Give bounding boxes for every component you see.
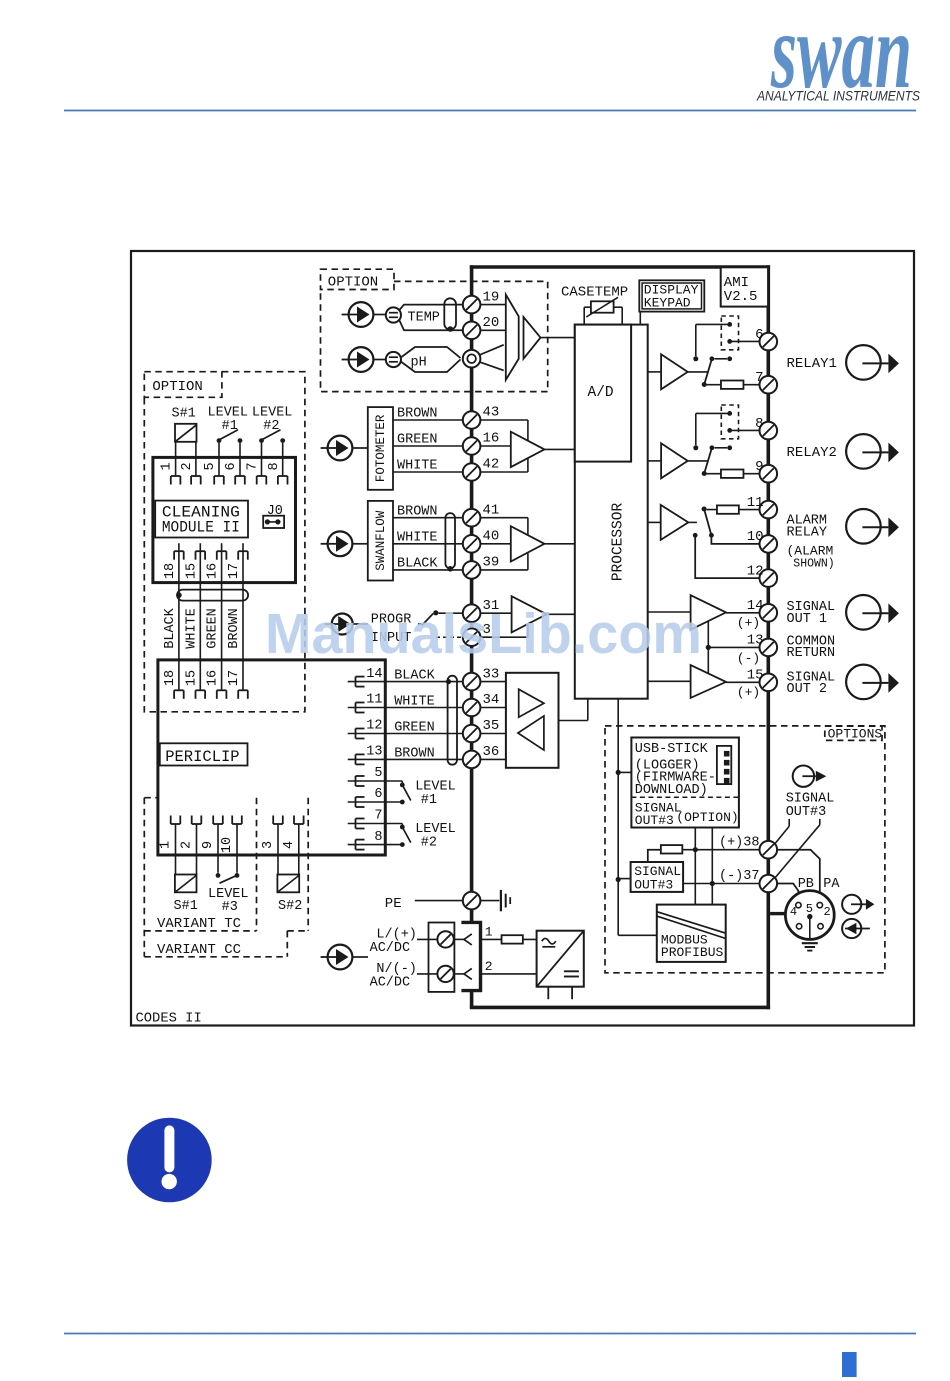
terminal 42 [463, 457, 500, 481]
svg-text:OUT 1: OUT 1 [787, 612, 828, 627]
svg-text:ManualsLib.com: ManualsLib.com [265, 602, 702, 666]
svg-text:OPTION: OPTION [328, 274, 378, 290]
svg-text:12: 12 [747, 563, 764, 579]
svg-text:20: 20 [483, 315, 500, 331]
profibus DIN connector J2 [770, 891, 834, 940]
terminal 19 [463, 289, 500, 313]
label LEVEL #2 (top) [252, 405, 293, 433]
svg-text:BLACK: BLACK [163, 607, 178, 648]
svg-text:TEMP: TEMP [408, 311, 440, 326]
svg-text:(-)37: (-)37 [719, 869, 760, 884]
svg-text:14: 14 [366, 667, 382, 682]
svg-text:16: 16 [206, 670, 221, 686]
svg-text:WHITE: WHITE [394, 695, 435, 710]
svg-text:GREEN: GREEN [397, 433, 438, 448]
swanflow probe connector [321, 531, 368, 556]
label COMMON RETURN [787, 635, 836, 662]
label ALARM RELAY [787, 514, 835, 571]
label LEVEL #1 (top) [208, 405, 249, 433]
level switch #1 (top) [217, 430, 243, 458]
label RELAY1 [787, 356, 837, 372]
terminal 34 [463, 692, 500, 716]
instrument enclosure top edge [470, 265, 770, 269]
svg-text:OUT#3: OUT#3 [786, 805, 827, 820]
AC/DC power supply box [537, 931, 584, 987]
svg-text:AC/DC: AC/DC [370, 976, 411, 991]
svg-text:19: 19 [483, 289, 500, 305]
OPTIONS dashed box [605, 726, 885, 973]
fotometer amp wires loop [480, 420, 528, 472]
left terminal bus [470, 265, 474, 922]
svg-text:(+)38: (+)38 [719, 835, 760, 850]
periclip pin 1 (bottom) [159, 816, 181, 856]
svg-text:7: 7 [246, 462, 261, 470]
svg-text:FOTOMETER: FOTOMETER [374, 414, 388, 482]
CLEANING MODULE II box [155, 501, 248, 538]
wire colour labels (vertical) [163, 607, 242, 648]
diagram outer frame [131, 251, 914, 1026]
profibus in icon [842, 919, 870, 938]
SWANFLOW box [368, 501, 393, 581]
periclip pin 3 (bottom) [261, 816, 283, 856]
label SIGNAL OUT#3 (option) [786, 792, 835, 821]
periclip pin 9 (bottom) [201, 816, 223, 856]
periclip row 6 [348, 787, 400, 807]
wire 1 with fuse F1 [481, 925, 537, 944]
wire processor to usb/modbus [616, 699, 657, 936]
terminal 36 [463, 744, 500, 768]
signal out 2 amp [648, 665, 760, 698]
processor box U1 [575, 325, 648, 699]
MODBUS PROFIBUS box [657, 905, 726, 962]
alarm fuse to terminal 11 [707, 505, 760, 513]
periclip cable shield [446, 676, 457, 765]
svg-text:3: 3 [261, 841, 276, 849]
plug chevrons [454, 934, 472, 980]
label (+)38 terminal 38 [719, 835, 777, 858]
label LEVEL #1 (right) [415, 780, 456, 808]
svg-text:8: 8 [267, 462, 282, 470]
power terminal L [417, 931, 454, 947]
solenoid S#1 (top) [175, 424, 197, 458]
module pin 7 [246, 457, 267, 484]
cable bundle capsule [176, 590, 248, 601]
diag links 38/37 to signal out#3 [775, 819, 820, 878]
svg-text:(-): (-) [737, 651, 760, 666]
swanflow cable shield [445, 513, 455, 572]
svg-text:1: 1 [159, 841, 174, 849]
SIGNAL OUT#3 box [631, 862, 760, 893]
wires to terminals 33-36 [480, 682, 506, 760]
periclip row 14 wire to terminal [348, 667, 463, 687]
cleaning module box [153, 457, 296, 582]
relay coil dashed box (RELAY1) [721, 316, 738, 350]
footer blue square [842, 1352, 857, 1377]
FOTOMETER box [368, 407, 393, 490]
svg-text:33: 33 [483, 666, 500, 682]
svg-text:V2.5: V2.5 [724, 289, 758, 305]
fotometer amp [511, 432, 575, 467]
wire 38 to PA pin [777, 850, 820, 903]
module pin 17 + wire down [227, 543, 248, 690]
svg-text:42: 42 [483, 457, 500, 473]
profibus out icon [842, 895, 874, 914]
svg-text:MODULE II: MODULE II [162, 518, 240, 536]
svg-text:15: 15 [184, 563, 199, 579]
signal out 2 icon [846, 665, 899, 700]
svg-text:S#2: S#2 [278, 899, 302, 914]
svg-text:BLACK: BLACK [394, 669, 435, 684]
svg-text:RELAY2: RELAY2 [787, 445, 837, 461]
input mux trapezoid [506, 295, 519, 380]
svg-text:2: 2 [180, 841, 195, 849]
USB connector icon [717, 746, 731, 784]
svg-text:11: 11 [747, 495, 764, 511]
terminal 6 [755, 327, 777, 351]
swanflow amp wires loop [480, 518, 528, 570]
periclip pin 2 (bottom) [180, 816, 202, 856]
svg-text:2: 2 [824, 905, 831, 919]
relay driver amp (RELAY2) [648, 443, 709, 478]
svg-text:(+): (+) [737, 616, 760, 631]
svg-text:39: 39 [483, 555, 500, 571]
terminal 35 [463, 718, 500, 742]
module pin 16 + wire down [206, 543, 227, 690]
svg-text:8: 8 [755, 416, 763, 432]
solenoid S#2 (bottom) [277, 855, 302, 914]
level switch #3 [208, 855, 249, 915]
svg-text:43: 43 [483, 405, 500, 421]
svg-text:15: 15 [747, 668, 764, 684]
svg-text:BLACK: BLACK [397, 557, 438, 572]
progr input probe connector [325, 614, 368, 635]
labels PB PA [798, 877, 841, 892]
svg-text:1: 1 [160, 462, 175, 470]
periclip pin 4 (bottom) [282, 816, 304, 856]
pH sensor symbol [374, 352, 427, 371]
svg-text:17: 17 [227, 670, 242, 686]
svg-text:ANALYTICAL INSTRUMENTS: ANALYTICAL INSTRUMENTS [756, 88, 920, 104]
label (-)37 terminal 37 [719, 869, 777, 892]
power terminal N [417, 966, 454, 982]
signal out#3 fuse wire [648, 845, 760, 862]
periclip row 5 [348, 766, 403, 786]
svg-text:OUT#3: OUT#3 [634, 878, 673, 893]
mux buffer amp [524, 317, 575, 359]
RS485 driver box [506, 673, 559, 768]
label RELAY2 [787, 445, 837, 461]
PERICLIP label box [160, 743, 248, 766]
terminal 12 [747, 563, 777, 586]
periclip row 7 [348, 809, 403, 829]
alarm relay driver amp [648, 505, 697, 540]
periclip row 11 wire to terminal [348, 693, 463, 713]
swanflow amp [511, 526, 575, 561]
fotometer probe connector [321, 436, 368, 461]
solenoid S#1 (bottom) [174, 855, 198, 914]
module pin 6 [224, 457, 245, 484]
svg-text:PA: PA [823, 877, 840, 892]
VARIANT TC dashed box [144, 798, 256, 957]
svg-text:1: 1 [485, 925, 493, 940]
svg-text:BROWN: BROWN [397, 504, 438, 519]
svg-text:RETURN: RETURN [787, 646, 836, 661]
module pin 8 [267, 457, 288, 484]
PERICLIP box [158, 660, 385, 855]
relay coil wiring (RELAY2) [693, 413, 760, 450]
svg-text:34: 34 [483, 692, 500, 708]
svg-text:5: 5 [806, 902, 813, 916]
svg-text:OPTION: OPTION [152, 379, 202, 395]
progr input switch [418, 610, 463, 637]
svg-text:A/D: A/D [588, 385, 614, 401]
svg-text:40: 40 [483, 529, 500, 545]
module pin 5 [203, 457, 224, 484]
svg-text:#2: #2 [421, 836, 437, 851]
pH probe connector P2 [342, 347, 374, 372]
relay contact switch (RELAY1) [702, 356, 732, 387]
svg-text:SWANFLOW: SWANFLOW [374, 510, 388, 571]
svg-text:10: 10 [747, 529, 764, 545]
terminal 15 [737, 668, 777, 701]
pH coax wires [401, 345, 504, 372]
relay coil dashed box (RELAY2) [721, 405, 738, 439]
driver output wire [559, 699, 588, 721]
terminal 9 [755, 459, 777, 482]
label S#1 (top) [172, 407, 196, 422]
svg-text:PE: PE [385, 896, 402, 912]
svg-text:CASETEMP: CASETEMP [561, 285, 628, 301]
jumper J0 [263, 504, 284, 528]
svg-text:7: 7 [755, 370, 763, 386]
relay coil wiring (RELAY1) [693, 324, 760, 361]
svg-text:13: 13 [747, 633, 764, 649]
signal out#3 icon [793, 766, 827, 787]
periclip pin 15 [184, 670, 205, 699]
label LEVEL #2 (right) [415, 822, 456, 850]
svg-text:pH: pH [411, 356, 427, 371]
fotometer wires BROWN/GREEN/WHITE [393, 407, 463, 474]
svg-text:USB-STICK: USB-STICK [635, 742, 709, 757]
svg-text:5: 5 [374, 766, 382, 781]
svg-text:PROFIBUS: PROFIBUS [661, 945, 724, 960]
svg-text:PROCESSOR: PROCESSOR [610, 503, 626, 582]
periclip pin 17 [227, 670, 248, 699]
periclip row 13 wire to terminal [348, 745, 463, 765]
power entry bracket [461, 922, 480, 1007]
RELAY2 output icon [846, 434, 899, 469]
svg-text:(+): (+) [737, 685, 760, 700]
svg-text:#1: #1 [421, 793, 437, 808]
svg-text:S#1: S#1 [172, 407, 196, 422]
svg-text:WHITE: WHITE [397, 459, 438, 474]
svg-text:(OPTION): (OPTION) [676, 810, 738, 825]
label SIGNAL OUT 2 [787, 671, 836, 698]
svg-text:16: 16 [206, 563, 221, 579]
option box drop wires [693, 828, 715, 905]
alarm relay contact (alarm shown) [693, 507, 714, 538]
svg-text:#3: #3 [222, 900, 238, 915]
svg-text:10: 10 [220, 837, 235, 853]
swanflow wires BROWN/WHITE/BLACK [393, 504, 463, 571]
terminal 14 [737, 598, 777, 631]
TEMP wires to terminals 19/20 [399, 305, 463, 331]
svg-text:S#1: S#1 [174, 899, 198, 914]
terminal 10 [747, 529, 777, 553]
svg-text:WHITE: WHITE [397, 531, 438, 546]
wire 2 [481, 959, 537, 974]
AMI V2.5 box [721, 267, 768, 306]
periclip pin 16 [206, 670, 227, 699]
CASETEMP thermistor RT1 [561, 285, 628, 325]
svg-text:PERICLIP: PERICLIP [165, 748, 239, 766]
svg-text:12: 12 [366, 719, 382, 734]
svg-text:RELAY1: RELAY1 [787, 356, 837, 372]
svg-text:BROWN: BROWN [394, 746, 435, 761]
svg-text:VARIANT TC: VARIANT TC [157, 916, 241, 932]
module pin 1 [160, 457, 181, 484]
svg-text:17: 17 [227, 563, 242, 579]
ground below DIN connector [802, 943, 818, 950]
terminal 8 [755, 416, 777, 440]
terminal 13 [737, 633, 777, 666]
relay fuse (RELAY2) [707, 470, 760, 478]
svg-text:OUT#3: OUT#3 [635, 813, 674, 828]
label SIGNAL OUT 1 [787, 600, 836, 627]
warning icon (blue circle exclamation) [127, 1118, 212, 1203]
header rule [64, 110, 916, 112]
svg-text:GREEN: GREEN [206, 608, 221, 649]
svg-text:4: 4 [282, 841, 297, 849]
labels L/(+) AC/DC N/(-) AC/DC [370, 927, 417, 990]
svg-text:7: 7 [374, 809, 382, 824]
OPTION dashed box (sensor input option) [321, 269, 548, 391]
svg-text:CODES II: CODES II [136, 1012, 202, 1027]
label PE + wire [385, 896, 463, 912]
level switch #2 (top) [259, 430, 285, 458]
terminal 16 [463, 431, 500, 455]
terminal 40 [463, 529, 500, 553]
power supply pins [548, 987, 572, 1000]
alarm output icon [846, 509, 899, 544]
svg-text:35: 35 [483, 718, 500, 734]
terminal 7 [755, 370, 777, 393]
svg-text:BROWN: BROWN [397, 407, 438, 422]
svg-text:GREEN: GREEN [394, 721, 435, 736]
svg-text:14: 14 [747, 598, 764, 614]
svg-text:AC/DC: AC/DC [370, 941, 411, 956]
svg-text:RELAY: RELAY [787, 525, 828, 540]
progr amp [512, 596, 575, 632]
power probe connector [321, 945, 368, 970]
module pin 18 + wire down [163, 543, 184, 690]
module pin 15 + wire down [184, 543, 205, 690]
TEMP cable shield [444, 298, 456, 332]
USB-STICK box [631, 738, 739, 828]
svg-text:OUT 2: OUT 2 [787, 682, 828, 697]
PE terminal [463, 892, 481, 910]
svg-text:16: 16 [483, 431, 500, 447]
svg-text:WHITE: WHITE [184, 608, 199, 649]
svg-text:5: 5 [203, 462, 218, 470]
relay driver amp (RELAY1) [648, 354, 709, 389]
wire to terminal 12 [695, 535, 760, 578]
svg-text:6: 6 [374, 787, 382, 802]
svg-text:SIGNAL: SIGNAL [634, 864, 681, 879]
svg-text:18: 18 [163, 563, 178, 579]
svg-text:(ALARM: (ALARM [787, 544, 834, 559]
svg-text:2: 2 [180, 462, 195, 470]
svg-text:13: 13 [366, 745, 382, 760]
svg-text:VARIANT CC: VARIANT CC [157, 942, 241, 958]
label CODES II [136, 1012, 202, 1027]
footer rule [64, 1333, 916, 1335]
VARIANT CC dashed box [144, 798, 308, 958]
svg-text:6: 6 [755, 327, 763, 343]
terminal 43 [463, 405, 500, 429]
svg-text:9: 9 [755, 459, 763, 475]
periclip pin 10 (bottom) [220, 816, 242, 856]
relay fuse (RELAY1) [707, 381, 760, 389]
label PROGR INPUT [371, 612, 412, 646]
PE ground symbol [480, 890, 510, 911]
svg-text:SHOWN): SHOWN) [793, 557, 834, 570]
swan logo [770, 0, 912, 111]
svg-text:11: 11 [366, 693, 382, 708]
periclip row 12 wire to terminal [348, 719, 463, 739]
svg-text:DOWNLOAD): DOWNLOAD) [635, 783, 708, 798]
A/D converter box [575, 325, 631, 462]
logo subtitle ANALYTICAL INSTRUMENTS [756, 88, 920, 104]
terminal 33 [463, 666, 500, 690]
svg-text:9: 9 [201, 841, 216, 849]
right terminal bus [766, 265, 770, 1009]
svg-text:6: 6 [224, 462, 239, 470]
progr amp wires [480, 613, 528, 637]
terminal 20 [463, 315, 500, 339]
bottom rail [470, 1006, 770, 1010]
periclip row 8 [348, 830, 400, 850]
svg-text:OPTIONS: OPTIONS [828, 727, 883, 742]
svg-text:4: 4 [790, 905, 797, 919]
pH coax terminal [463, 350, 481, 368]
TEMP probe connector P1 [342, 302, 374, 327]
common return wire [706, 621, 760, 673]
watermark ManualsLib.com [265, 602, 702, 666]
OPTION dashed box (cleaning module) [144, 372, 305, 712]
power terminal box [429, 923, 455, 992]
wires 19/20 to mux [480, 305, 506, 331]
level switch #1 (right) [400, 781, 411, 804]
module pin 2 [180, 457, 201, 484]
svg-text:BROWN: BROWN [227, 608, 242, 649]
RELAY1 output icon [846, 345, 899, 380]
wire to terminal 10 [711, 535, 759, 544]
level switch #2 (right) [400, 824, 411, 847]
wire 37 to PB pin [777, 884, 799, 903]
terminal 11 [747, 495, 777, 519]
terminal 39 [463, 555, 500, 579]
terminal 31 [463, 598, 500, 622]
periclip pin 18 [163, 670, 184, 699]
svg-text:8: 8 [374, 830, 382, 845]
TEMP sensor symbol [374, 307, 440, 325]
DISPLAY KEYPAD box [639, 280, 704, 324]
svg-text:36: 36 [483, 744, 500, 760]
signal out 1 icon [846, 595, 899, 630]
terminal 3 [463, 622, 491, 646]
relay contact switch (RELAY2) [702, 445, 732, 476]
